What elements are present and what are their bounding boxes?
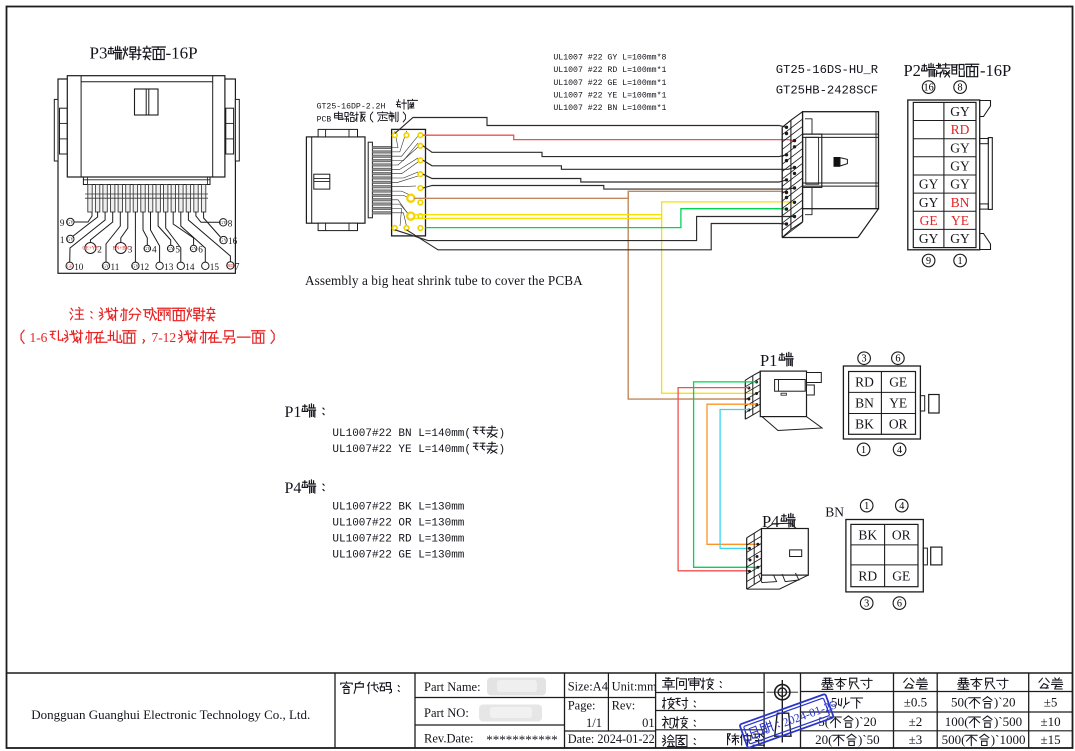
svg-text:10: 10 — [74, 262, 84, 272]
svg-text:GY: GY — [67, 220, 74, 225]
svg-text:P3: P3 — [90, 44, 108, 63]
wire GE P1-P4 — [694, 382, 758, 567]
svg-text:GT25-16DP-2.2H: GT25-16DP-2.2H — [317, 103, 386, 112]
svg-text:BN: BN — [825, 505, 844, 520]
P3 solder hole 1 — [60, 235, 74, 245]
label P1 — [760, 351, 793, 370]
wire GY 3 — [423, 160, 795, 169]
P3 solder hole 7 — [227, 261, 240, 271]
svg-text:±10: ±10 — [1041, 714, 1061, 729]
title block lines — [7, 673, 1073, 748]
svg-text:4: 4 — [897, 445, 902, 456]
svg-text:GY: GY — [950, 159, 970, 174]
connector P3 pins x16 — [85, 185, 208, 213]
connector P3 left clip — [54, 99, 67, 161]
svg-text:UL1007#22 YE L=140mm(: UL1007#22 YE L=140mm( — [332, 444, 471, 456]
P3 solder hole 5 — [167, 245, 180, 255]
P1 table texts — [855, 375, 907, 432]
svg-text:RD: RD — [227, 263, 234, 268]
svg-text:UL1007#22 OR L=130mm: UL1007#22 OR L=130mm — [332, 518, 464, 530]
svg-text:GY: GY — [190, 246, 197, 251]
P3 solder hole 12 — [132, 262, 150, 272]
plug top tab — [318, 129, 357, 137]
svg-text:OR: OR — [889, 416, 908, 431]
PCB solder pads — [393, 133, 423, 230]
svg-text:9: 9 — [60, 218, 65, 228]
label P1 wire list — [285, 404, 506, 456]
P1 latch rect — [929, 395, 939, 414]
P1 table frame — [843, 366, 924, 439]
P3 solder hole 3 — [112, 243, 132, 255]
svg-text:UL1007 #22 GY L=100mm*8: UL1007 #22 GY L=100mm*8 — [553, 53, 666, 63]
svg-text:1: 1 — [60, 235, 65, 245]
svg-text:-16P: -16P — [980, 61, 1011, 80]
svg-text:P1: P1 — [760, 351, 777, 370]
svg-text:11: 11 — [111, 262, 120, 272]
svg-text:UL1007 #22 BN L=100mm*1: UL1007 #22 BN L=100mm*1 — [553, 103, 666, 113]
svg-text:***********: *********** — [486, 732, 558, 747]
svg-text:GY: GY — [220, 238, 227, 243]
svg-text:)`20: )`20 — [994, 695, 1016, 710]
P4 table frame — [846, 520, 927, 592]
svg-text:UL1007#22 RD L=130mm: UL1007#22 RD L=130mm — [332, 533, 464, 545]
svg-text:Page:: Page: — [568, 699, 596, 713]
page cell — [568, 699, 602, 731]
svg-text:UL1007 #22 RD L=100mm*1: UL1007 #22 RD L=100mm*1 — [553, 65, 666, 75]
wire OR P1-P4 — [707, 404, 758, 544]
check row — [663, 698, 696, 709]
PCB board — [392, 129, 426, 236]
GT25 bottom face — [782, 209, 878, 238]
svg-text:GY: GY — [950, 177, 970, 192]
label GT25-16DP-2.2H pin header — [317, 99, 418, 111]
svg-text:Part Name:: Part Name: — [424, 680, 481, 694]
plug mating face strip — [368, 142, 372, 218]
svg-text:16: 16 — [228, 236, 238, 246]
svg-text:P2: P2 — [904, 61, 921, 80]
connector P3 pin base strip — [83, 177, 210, 184]
svg-text:)`1000: )`1000 — [991, 732, 1026, 747]
label P2 assembly face title — [904, 61, 1012, 80]
svg-text:OR: OR — [892, 527, 911, 542]
P3 solder hole 6 — [190, 245, 203, 255]
connector GT25-16DS crimp block — [782, 112, 802, 238]
svg-text:)`20: )`20 — [855, 714, 877, 729]
svg-text:1: 1 — [864, 501, 869, 512]
svg-text:UL1007 #22 GE L=100mm*1: UL1007 #22 GE L=100mm*1 — [553, 78, 666, 88]
svg-text:2: 2 — [97, 245, 102, 255]
svg-text:4: 4 — [899, 501, 904, 512]
svg-text:6: 6 — [895, 354, 900, 365]
P4 latch rect — [931, 547, 942, 565]
note: wires split on two sides (red) — [21, 307, 274, 345]
svg-text:13: 13 — [164, 262, 174, 272]
part name row — [424, 678, 546, 696]
drawn-by row — [662, 734, 764, 747]
wire GE (pcb to P2) — [426, 209, 787, 228]
svg-text:YE: YE — [889, 396, 907, 411]
first-angle projection symbol — [767, 680, 799, 743]
svg-text:±5: ±5 — [1044, 695, 1058, 710]
svg-text:UL1007#22 BK L=130mm: UL1007#22 BK L=130mm — [332, 502, 464, 514]
svg-text:UL1007#22 BN L=140mm(: UL1007#22 BN L=140mm( — [332, 428, 471, 440]
svg-text:8: 8 — [958, 83, 963, 94]
P3 solder hole 15 — [202, 262, 220, 272]
svg-text:16: 16 — [924, 83, 934, 94]
wire GY 4 — [423, 174, 787, 182]
P1 pin number circles — [857, 352, 906, 456]
svg-text:Part NO:: Part NO: — [424, 706, 469, 720]
plug latch detail — [314, 174, 330, 189]
GT25 crimp contact dots — [785, 126, 796, 226]
svg-text:PCB: PCB — [317, 116, 332, 125]
connector P4 crimp block — [747, 529, 762, 590]
svg-text:): ) — [499, 444, 506, 456]
svg-text:9: 9 — [926, 256, 931, 267]
label P4 wire list — [285, 480, 465, 562]
svg-text:UL1007 #22 YE L=100mm*1: UL1007 #22 YE L=100mm*1 — [553, 91, 666, 101]
svg-text:12: 12 — [140, 262, 150, 272]
tolerance table header — [822, 678, 1063, 690]
rev date row — [424, 732, 558, 748]
plug pin comb x16 — [372, 146, 391, 214]
connector P3 latch — [135, 89, 159, 115]
P3 solder hole 10 — [66, 262, 84, 272]
svg-text:7-12: 7-12 — [152, 330, 177, 345]
svg-text:RD: RD — [858, 568, 877, 583]
svg-text:)`500: )`500 — [994, 714, 1022, 729]
svg-text:7: 7 — [235, 261, 240, 271]
svg-text:GY: GY — [919, 177, 939, 192]
svg-text:GY: GY — [67, 237, 74, 242]
P4 crimp dots — [748, 543, 759, 573]
P3 pin fan-out wires — [70, 212, 231, 262]
wire GY 6 (bottom wrap) — [395, 217, 795, 241]
svg-text:GT25-16DS-HU_R: GT25-16DS-HU_R — [776, 63, 878, 77]
P4 table texts — [858, 527, 910, 583]
label P4 — [762, 512, 795, 531]
workshop audit row — [663, 678, 722, 690]
wire YE (pcb to P2, twin branch to P1) — [414, 214, 662, 216]
rev cell — [612, 699, 655, 731]
P3 solder hole 11 — [102, 262, 119, 272]
wire RD P1-P4 — [678, 388, 749, 571]
tolerance row 3 — [815, 732, 1061, 747]
PCB traces — [392, 131, 421, 226]
wire RD (pcb to P2) — [423, 135, 795, 140]
svg-text:GY: GY — [132, 263, 139, 268]
customer code label — [341, 682, 400, 694]
P3 solder hole 2 — [82, 243, 102, 255]
svg-text:BK: BK — [858, 527, 877, 542]
svg-text:Rev:: Rev: — [612, 699, 636, 713]
wire BN (pcb to P2, twin branch to P1) — [414, 191, 787, 198]
svg-text:P4: P4 — [285, 480, 302, 497]
svg-text:P1: P1 — [285, 404, 302, 421]
svg-text:Rev.Date:: Rev.Date: — [424, 732, 474, 746]
svg-text:±0.5: ±0.5 — [904, 695, 927, 710]
svg-text:BN: BN — [951, 195, 970, 210]
svg-text:50(: 50( — [951, 695, 968, 710]
svg-text:±2: ±2 — [909, 714, 923, 729]
svg-text:1/1: 1/1 — [586, 716, 602, 730]
svg-text:RD: RD — [855, 375, 874, 390]
svg-text:GE: GE — [892, 568, 910, 583]
svg-text:GY: GY — [950, 104, 970, 119]
svg-text:1-6: 1-6 — [30, 330, 48, 345]
first check row — [662, 716, 695, 728]
tolerance row 1 — [831, 695, 1058, 710]
connector P3 body — [67, 76, 225, 177]
svg-text:-16P: -16P — [166, 44, 198, 63]
svg-text:Dongguan Guanghui Electronic T: Dongguan Guanghui Electronic Technology … — [31, 707, 310, 722]
GT25 keying wedge — [834, 157, 848, 167]
svg-text:BN: BN — [855, 396, 874, 411]
blue date stamp — [739, 692, 839, 748]
svg-text:5: 5 — [175, 245, 180, 255]
label P3 soldering face title — [90, 44, 198, 63]
P3 solder hole 4 — [144, 245, 157, 255]
svg-text:)`50: )`50 — [858, 732, 880, 747]
connector P3 right clip — [226, 99, 239, 161]
P2 table frame — [908, 100, 980, 250]
P3 solder hole 8 — [220, 218, 233, 228]
part no row — [424, 705, 542, 722]
connector P1 crimp block — [745, 372, 760, 420]
connector P3 fan-out box — [58, 79, 235, 273]
svg-text:6: 6 — [198, 245, 203, 255]
svg-text:±3: ±3 — [909, 732, 923, 747]
svg-text:GE: GE — [889, 375, 907, 390]
svg-text:1: 1 — [861, 445, 866, 456]
svg-text:RD: RD — [951, 122, 970, 137]
P2 housing tabs — [980, 101, 993, 250]
svg-text:4: 4 — [152, 245, 157, 255]
svg-text:GE: GE — [920, 213, 938, 228]
svg-text:100(: 100( — [945, 714, 969, 729]
wire BK P1-P4 (drawn cyan) — [720, 410, 749, 549]
wire list UL1007 — [553, 53, 666, 114]
svg-text:14: 14 — [185, 262, 195, 272]
svg-text:GY: GY — [167, 246, 174, 251]
svg-text:3: 3 — [862, 354, 867, 365]
P4 body — [747, 523, 809, 589]
P4 pin number circles — [860, 499, 908, 609]
svg-text:UL1007#22 GE L=130mm: UL1007#22 GE L=130mm — [332, 549, 464, 561]
svg-text:GY: GY — [950, 140, 970, 155]
GT25 body — [803, 112, 879, 215]
svg-text:): ) — [499, 428, 506, 440]
svg-text:GY: GY — [144, 246, 151, 251]
P3 solder hole 9 — [60, 218, 74, 228]
connector GT25-16DP plug body — [306, 137, 365, 223]
svg-text:500(: 500( — [942, 732, 966, 747]
P1 crimp dots — [747, 381, 758, 412]
svg-text:GY: GY — [220, 220, 227, 225]
svg-text:3: 3 — [864, 599, 869, 610]
svg-text:01: 01 — [642, 716, 655, 730]
svg-text:YE: YE — [951, 213, 969, 228]
P1 body — [760, 371, 822, 430]
P3 solder hole 13 — [156, 262, 174, 272]
svg-text:1: 1 — [958, 256, 963, 267]
svg-text:GY: GY — [950, 231, 970, 246]
svg-text:20(: 20( — [815, 732, 832, 747]
svg-text:GE: GE — [67, 263, 73, 268]
svg-text:3: 3 — [128, 245, 133, 255]
tolerance row 2 — [818, 714, 1060, 729]
svg-text:±15: ±15 — [1041, 732, 1061, 747]
svg-text:8: 8 — [228, 218, 233, 228]
wire GY 1 (pcb to P2) — [395, 118, 787, 134]
svg-text:6: 6 — [897, 599, 902, 610]
svg-text:GT25HB-2428SCF: GT25HB-2428SCF — [776, 83, 878, 97]
P3 solder hole 14 — [177, 262, 195, 272]
svg-text:BK: BK — [855, 416, 874, 431]
svg-text:GY: GY — [919, 231, 939, 246]
P2 table cell texts — [919, 104, 970, 246]
svg-text:GE+YE: GE+YE — [82, 247, 98, 252]
P3 solder hole 16 — [220, 236, 238, 246]
svg-text:Assembly a big heat shrink tub: Assembly a big heat shrink tube to cover… — [305, 273, 583, 288]
svg-text:Date: 2024-01-22: Date: 2024-01-22 — [568, 732, 655, 746]
P2 pin number circles — [922, 81, 966, 267]
wire GY 5 — [423, 186, 795, 190]
svg-text:Unit:mm: Unit:mm — [612, 680, 657, 694]
wire GY 7 (bottom wrap) — [407, 224, 787, 250]
svg-text:15: 15 — [210, 262, 220, 272]
wire GY 2 — [423, 146, 787, 157]
svg-text:GY: GY — [919, 195, 939, 210]
plug bottom tab — [318, 223, 357, 230]
svg-text:Size:A4: Size:A4 — [568, 680, 609, 694]
label PCB board (custom) — [317, 112, 406, 125]
svg-text:GY: GY — [103, 263, 110, 268]
